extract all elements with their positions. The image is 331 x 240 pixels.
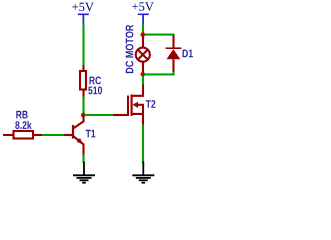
ground symbol under T2 — [132, 162, 154, 183]
wire RC bottom to node — [82, 97, 84, 115]
label D1 — [183, 50, 193, 58]
wire T1 emitter to ground — [82, 155, 84, 164]
wire motor node to T2 drain — [142, 76, 144, 85]
wire RB to T1 base — [42, 134, 64, 136]
label T2 — [146, 100, 156, 108]
value 8.2k — [15, 121, 31, 129]
junction node motor top — [141, 32, 146, 37]
ground symbol under T1 — [73, 162, 95, 183]
wire diode anode to motor bottom node — [144, 72, 174, 74]
transistor T2 (N-channel MOSFET) — [113, 85, 143, 125]
junction node motor bottom — [141, 72, 146, 77]
value 510 — [88, 87, 102, 95]
wire T2 source to ground — [142, 125, 144, 164]
wire +5V down to motor node — [142, 24, 144, 33]
power +5V supply symbol (left column) — [72, 3, 94, 25]
wire node to T2 gate — [85, 114, 114, 116]
DC MOTOR (circle with X) — [136, 36, 150, 74]
junction node at T1 collector — [81, 113, 86, 118]
wire +5V down to RC — [82, 25, 84, 66]
label T1 — [86, 130, 96, 138]
transistor T1 (NPN BJT) — [64, 115, 84, 155]
diode D1 (flyback, cathode up) — [166, 36, 182, 73]
resistor RC 510 (vertical) — [80, 65, 86, 97]
label DC MOTOR (rotated) — [126, 25, 134, 73]
label RC — [90, 77, 102, 85]
label RB — [16, 111, 27, 119]
power +5V supply symbol (right column) — [132, 2, 154, 24]
wire motor top node to diode D1 — [145, 35, 174, 37]
resistor RB 8.2k (horizontal) — [3, 131, 42, 139]
